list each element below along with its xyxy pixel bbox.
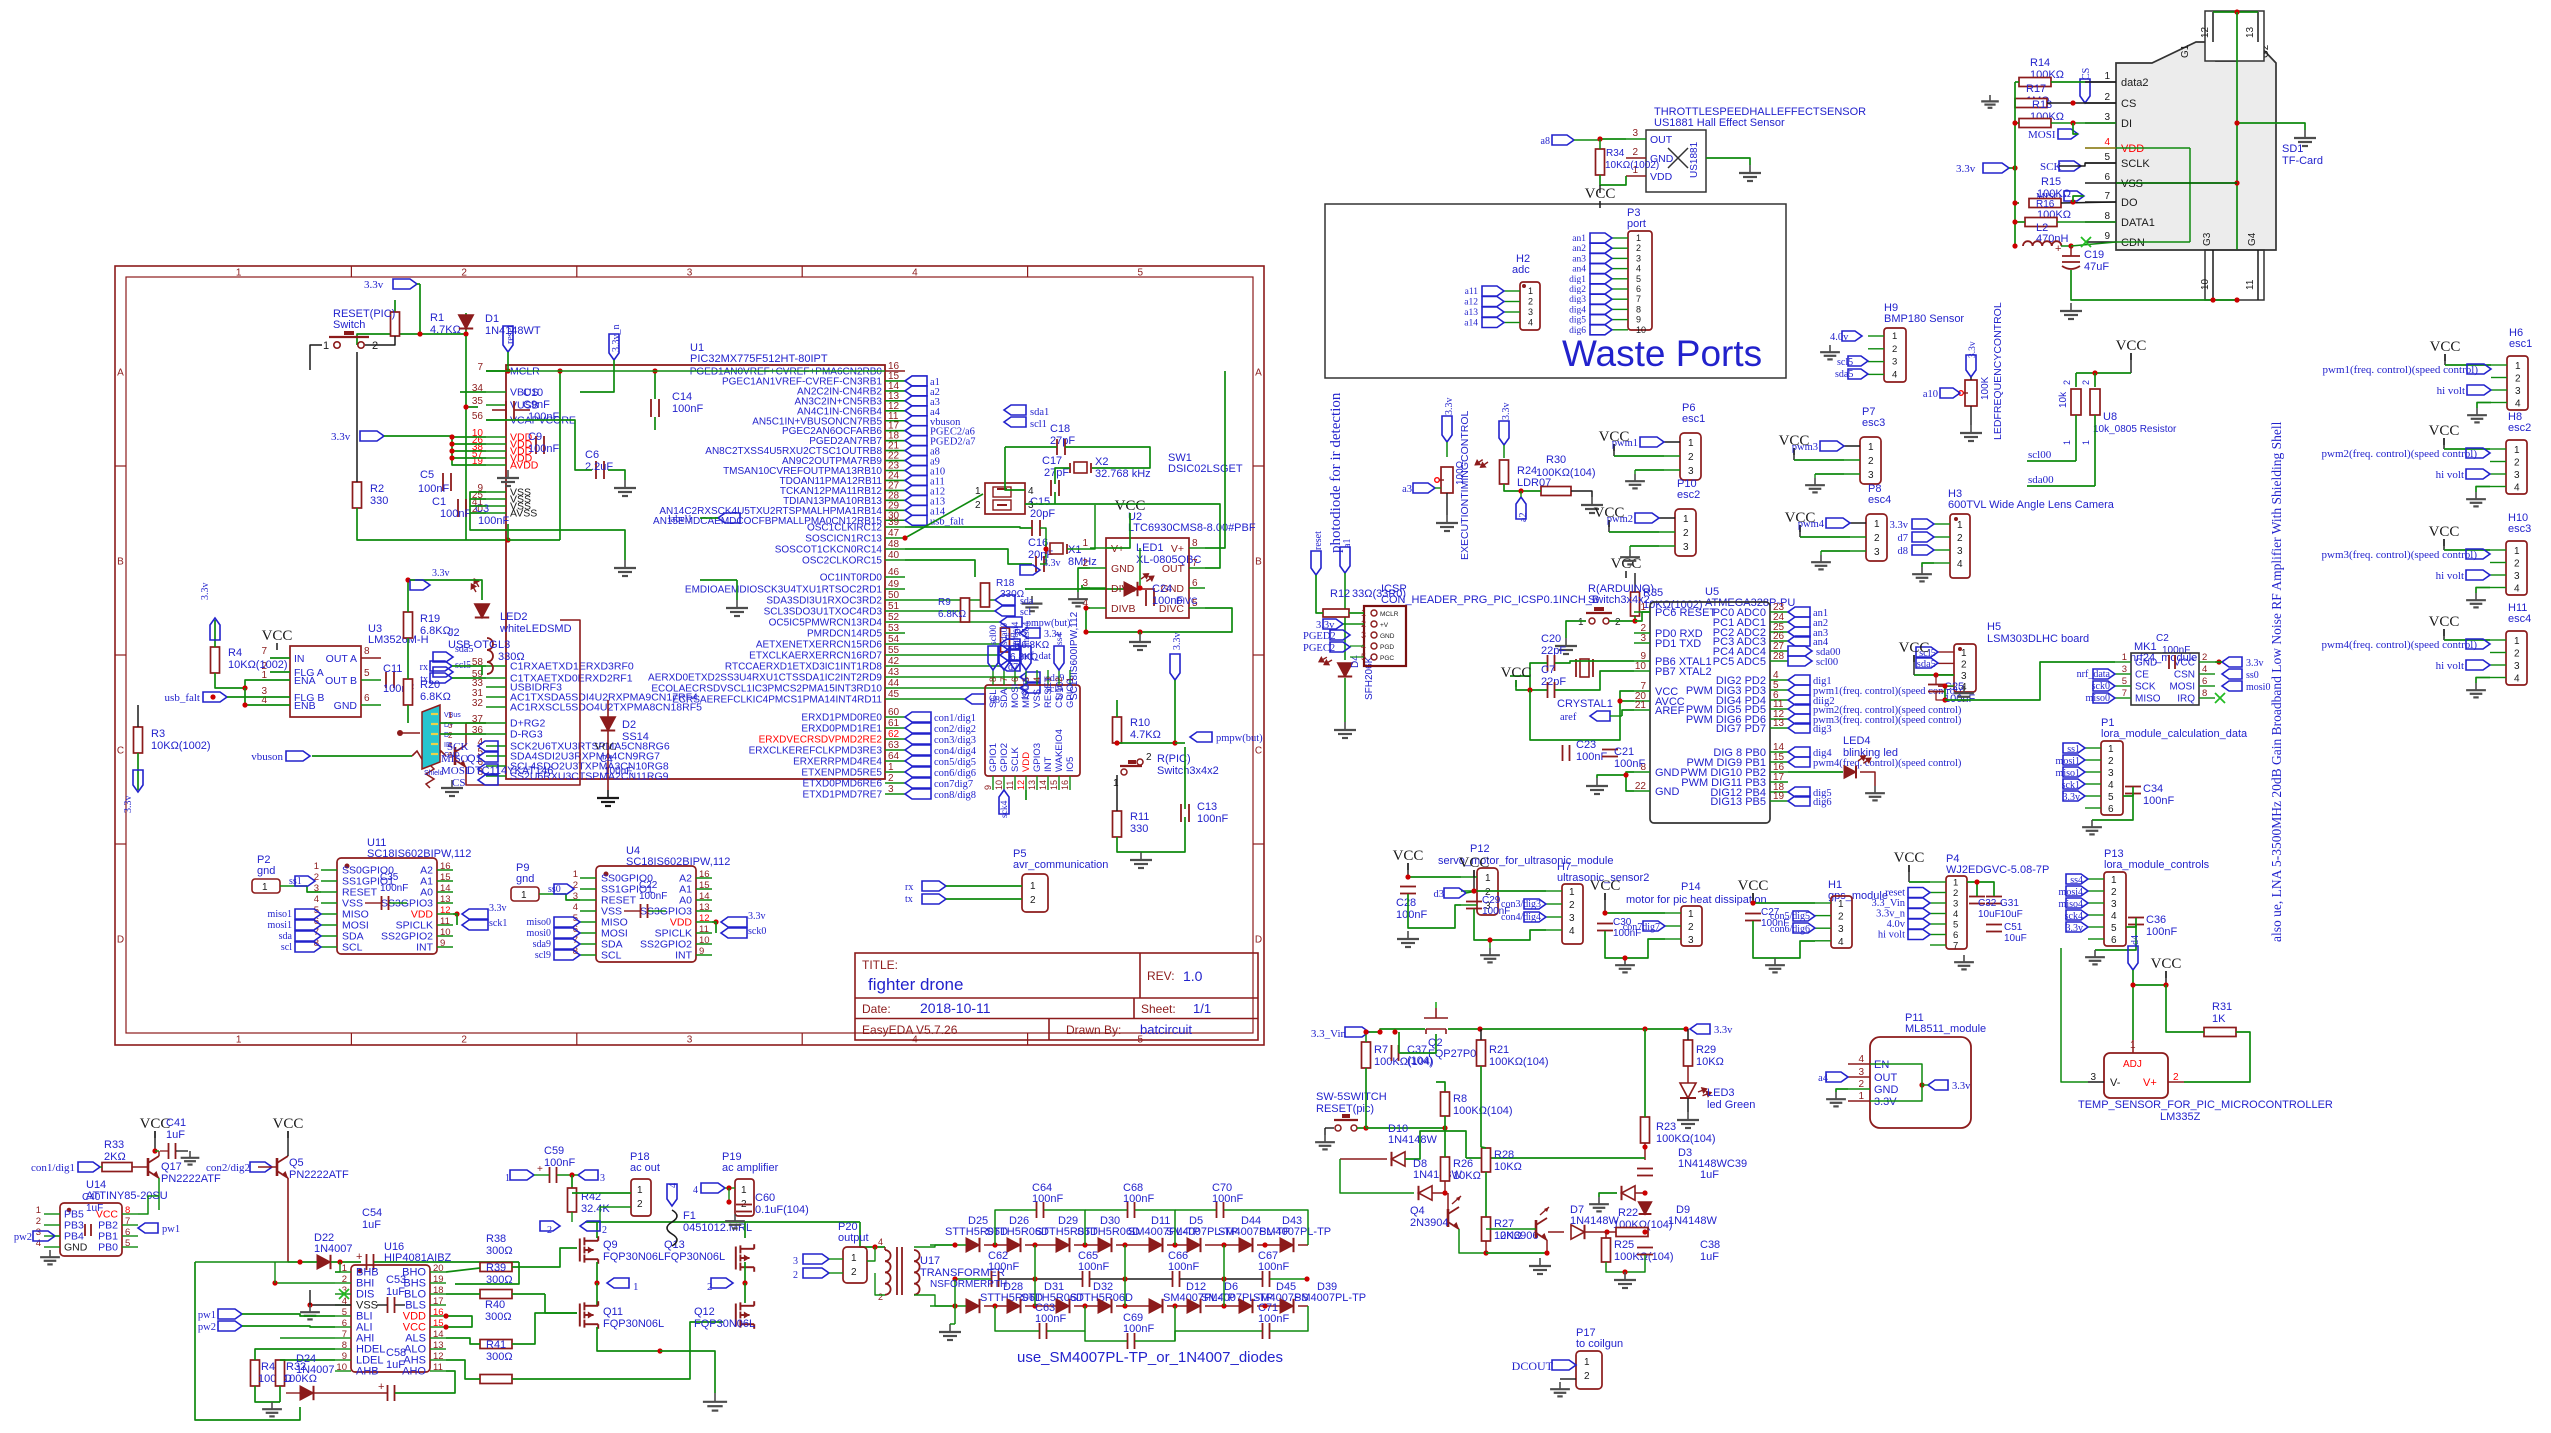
temp sensor LM335Z	[2104, 1053, 2168, 1098]
crystal X2 32.768kHz	[1069, 463, 1071, 473]
wire mid rail	[955, 1278, 991, 1280]
svg-text:OUT: OUT	[1650, 134, 1673, 146]
U16 pin 14 ALS	[430, 1337, 446, 1339]
svg-text:CS: CS	[2081, 68, 2092, 80]
svg-text:sda: sda	[279, 931, 293, 942]
ground	[949, 1324, 951, 1332]
inductor L3	[487, 638, 493, 674]
svg-text:100nF: 100nF	[1944, 693, 1975, 705]
photodiode D4 SFH206K	[1344, 573, 1346, 660]
svg-text:SCK: SCK	[447, 741, 468, 753]
svg-text:R15: R15	[2041, 176, 2061, 188]
svg-text:SW-5SWITCH: SW-5SWITCH	[1316, 1091, 1387, 1103]
svg-text:1: 1	[2108, 744, 2114, 755]
wire	[1055, 468, 1070, 484]
svg-text:3: 3	[1892, 357, 1897, 368]
net flag sda00	[999, 646, 1009, 670]
svg-text:1: 1	[1874, 519, 1880, 530]
svg-text:1: 1	[637, 1185, 643, 1196]
svg-text:C20: C20	[1541, 633, 1561, 645]
U10 pin 4 VSS	[1036, 670, 1038, 685]
ground	[2091, 820, 2093, 827]
svg-text:pwm4(freq. control)(speed cont: pwm4(freq. control)(speed control)	[2322, 639, 2478, 651]
resistor R41	[480, 1375, 512, 1384]
svg-text:1N4007: 1N4007	[314, 1243, 353, 1255]
svg-text:R3: R3	[151, 728, 165, 740]
svg-text:1: 1	[36, 1205, 41, 1216]
svg-text:AETXENETXERRCN15RD6: AETXENETXERRCN15RD6	[756, 640, 883, 651]
U16 pin 20 BHO	[430, 1271, 446, 1273]
net flag pmpw(but)	[1190, 732, 1212, 742]
svg-text:10KΩ: 10KΩ	[1494, 1161, 1522, 1173]
svg-text:4: 4	[1953, 909, 1958, 920]
svg-text:1uF: 1uF	[86, 1203, 103, 1214]
svg-text:PC5 ADC5: PC5 ADC5	[1713, 656, 1766, 668]
U4 pin 7	[580, 943, 596, 945]
svg-text:2: 2	[1961, 659, 1967, 670]
svg-text:INT: INT	[1043, 757, 1054, 773]
svg-text:2: 2	[1632, 147, 1638, 158]
U10 pin 13 GPIO3	[1036, 776, 1038, 790]
svg-text:GND: GND	[1655, 767, 1680, 779]
svg-text:PMRDCN14RD5: PMRDCN14RD5	[807, 629, 882, 640]
svg-text:a3: a3	[1402, 484, 1412, 495]
svg-text:dig6: dig6	[1813, 797, 1832, 808]
svg-text:+: +	[356, 1251, 362, 1263]
svg-text:1: 1	[1113, 778, 1119, 789]
svg-text:R28: R28	[1494, 1149, 1514, 1161]
svg-text:DIG7 PD7: DIG7 PD7	[1716, 723, 1766, 735]
MK1 pin 2 VCC	[2199, 661, 2215, 663]
svg-text:hi volt: hi volt	[2436, 570, 2464, 582]
U14 pin 5 PB0	[122, 1246, 138, 1248]
svg-text:batcircuit: batcircuit	[1140, 1022, 1192, 1037]
svg-text:sda00: sda00	[2028, 474, 2054, 486]
wire data1	[2015, 221, 2025, 223]
svg-text:Switch: Switch	[333, 319, 365, 331]
svg-text:pw2: pw2	[14, 1232, 32, 1243]
svg-text:GPIO1: GPIO1	[988, 743, 999, 772]
U14 pin 6 PB1	[122, 1235, 138, 1237]
svg-text:8: 8	[364, 646, 370, 657]
SD1 bottom tabs G3 G4	[2205, 250, 2264, 300]
wire L2/CDN	[2012, 243, 2017, 248]
svg-text:GND: GND	[334, 700, 358, 712]
svg-text:50: 50	[888, 590, 900, 601]
svg-text:VCC: VCC	[2174, 658, 2195, 669]
U1 pin 38 VDD	[486, 450, 506, 452]
svg-text:1: 1	[1838, 899, 1844, 910]
svg-text:port: port	[1627, 218, 1646, 230]
ground	[1629, 550, 1631, 557]
svg-text:8: 8	[125, 1205, 130, 1216]
svg-text:pwm3: pwm3	[1792, 442, 1818, 453]
U5 pin 1 PC6 RESET	[1634, 611, 1650, 613]
U4 pin 11	[696, 932, 712, 934]
svg-text:10: 10	[699, 935, 710, 946]
U4 pin 9	[696, 954, 712, 956]
svg-text:1: 1	[1636, 233, 1641, 243]
mosfet Q9 FQP30N06L	[580, 1236, 598, 1264]
svg-text:R24: R24	[1517, 465, 1537, 477]
SD1 pin 5 SCLK	[2085, 162, 2116, 164]
U1 pin 48 SOSCOT1CKCN0RC14	[885, 548, 905, 550]
svg-text:9: 9	[699, 946, 704, 957]
svg-text:rx: rx	[905, 882, 913, 893]
U1 pin 57 VDD	[486, 457, 506, 459]
U2 pin 7 OUT	[1189, 567, 1205, 569]
svg-text:R30: R30	[1546, 454, 1566, 466]
svg-text:US1881 Hall Effect Sensor: US1881 Hall Effect Sensor	[1654, 117, 1785, 129]
ICSP pin 2 +V	[1371, 621, 1377, 627]
wire q4 emitter	[1459, 1229, 1486, 1253]
X mark no-connect	[2215, 693, 2225, 703]
svg-text:ERXD1PMD0RE0: ERXD1PMD0RE0	[801, 713, 882, 724]
U1 pin 21 AN8C2TXSS4U5RXU2CTSC1OUTRB8	[885, 450, 905, 452]
svg-text:10: 10	[336, 1362, 347, 1373]
svg-text:2: 2	[1838, 912, 1844, 923]
svg-text:2: 2	[1636, 243, 1641, 253]
MK1 pin 6 MOSI	[2199, 685, 2215, 687]
U1 pin 46 OC1INT0RD0	[885, 576, 905, 578]
sheet border frame	[115, 266, 1264, 1045]
svg-text:C58: C58	[386, 1347, 406, 1359]
svg-text:2: 2	[461, 1035, 467, 1046]
U1 pin 43 AERXD0ETXD2SS3U4RXU1CTSSDA1IC2INT2RD9	[885, 676, 905, 678]
svg-text:pw1: pw1	[162, 1224, 180, 1235]
svg-text:2: 2	[1528, 297, 1533, 307]
svg-text:hi volt: hi volt	[1878, 930, 1905, 941]
svg-text:IRQ: IRQ	[2177, 694, 2195, 705]
net flag sda9	[1020, 672, 1040, 682]
svg-text:2: 2	[1584, 1371, 1590, 1382]
MK1 pin 7 MISO	[2115, 697, 2131, 699]
wire	[486, 420, 592, 470]
svg-text:2: 2	[878, 1292, 883, 1302]
svg-text:2: 2	[1874, 533, 1880, 544]
svg-text:VSS: VSS	[1032, 689, 1043, 708]
svg-text:3: 3	[1528, 307, 1533, 317]
svg-text:V+: V+	[1111, 543, 1124, 555]
ground	[1970, 425, 1972, 433]
svg-text:OUT: OUT	[1162, 563, 1185, 575]
MK1 pin 5 SCK	[2115, 685, 2131, 687]
svg-text:3.3v: 3.3v	[1952, 1081, 1971, 1092]
transistor Q5 PN2222ATF	[276, 1158, 279, 1176]
svg-text:1: 1	[236, 268, 242, 279]
svg-text:10k: 10k	[2058, 391, 2069, 408]
svg-text:led Green: led Green	[1707, 1099, 1755, 1111]
P11 pin 1 3.3V	[1848, 1100, 1870, 1102]
svg-text:100nF,: 100nF,	[528, 411, 561, 423]
ground	[2094, 950, 2096, 957]
svg-text:dig4: dig4	[1569, 305, 1586, 315]
wire q9 chain	[585, 1221, 860, 1223]
ground	[189, 1151, 191, 1158]
LDR R24 LDR07	[1503, 445, 1505, 458]
svg-text:C41: C41	[166, 1117, 186, 1129]
svg-text:100nF: 100nF	[672, 403, 703, 415]
svg-text:lora_module_controls: lora_module_controls	[2104, 859, 2210, 871]
SD1 pin 2 CS	[2085, 102, 2116, 104]
svg-text:aref: aref	[1560, 712, 1577, 723]
svg-text:8: 8	[2202, 688, 2207, 699]
U2 pin 4 DIVB	[1090, 607, 1106, 609]
svg-text:1uF: 1uF	[1700, 1251, 1719, 1263]
svg-text:GPIO3: GPIO3	[1032, 743, 1043, 772]
svg-text:2: 2	[1615, 617, 1621, 628]
svg-text:1: 1	[1578, 617, 1584, 628]
svg-text:2: 2	[1683, 528, 1689, 539]
svg-text:R9: R9	[938, 597, 951, 608]
svg-text:6: 6	[1953, 930, 1958, 941]
svg-text:DATA1: DATA1	[2121, 217, 2155, 229]
svg-text:pwm4(freq. control)(speed cont: pwm4(freq. control)(speed control)	[1813, 758, 1962, 769]
svg-text:R26: R26	[1453, 1158, 1473, 1170]
U1 pin 42 RTCCAERXD1ETXD3IC1INT1RD8	[885, 665, 905, 667]
SD1 pin 1 data2	[2085, 81, 2116, 83]
svg-text:LTC6930CMS8-8.00#PBF: LTC6930CMS8-8.00#PBF	[1128, 522, 1256, 534]
capacitor C5	[442, 473, 444, 491]
wire xtal	[1530, 663, 1547, 690]
svg-text:C51: C51	[2004, 922, 2023, 933]
svg-text:2: 2	[637, 1199, 643, 1210]
svg-text:2: 2	[1868, 456, 1874, 467]
US1881 pin 2 GND	[1626, 157, 1646, 159]
svg-text:100KΩ(104): 100KΩ(104)	[1489, 1056, 1549, 1068]
ground	[1565, 638, 1567, 646]
svg-text:sck4: sck4	[1000, 800, 1010, 818]
svg-text:R23: R23	[1656, 1121, 1676, 1133]
svg-text:4: 4	[2514, 584, 2520, 595]
svg-text:7: 7	[125, 1216, 130, 1227]
svg-text:EMDIOAEMDIOSCK3U4TXU1RTSOC2RD1: EMDIOAEMDIOSCK3U4TXU1RTSOC2RD1	[685, 585, 883, 596]
svg-text:100KΩ(104): 100KΩ(104)	[1536, 467, 1596, 479]
svg-text:sda: sda	[1020, 596, 1034, 607]
ICSP pin 1 MCLR	[1371, 610, 1377, 616]
svg-text:100nF: 100nF	[1197, 813, 1228, 825]
svg-text:VCC: VCC	[1115, 498, 1146, 514]
wire C19 gnd	[2071, 270, 2237, 300]
mosfet Q11 FQP30N06L	[580, 1301, 598, 1329]
wire	[1504, 484, 1541, 491]
U11 pin 16	[437, 869, 453, 871]
svg-text:2: 2	[1858, 1079, 1864, 1090]
svg-text:R25: R25	[1614, 1239, 1634, 1251]
svg-text:4: 4	[1569, 926, 1575, 937]
svg-text:G4: G4	[2247, 232, 2258, 246]
svg-text:an1: an1	[1572, 234, 1586, 244]
svg-text:2: 2	[2514, 649, 2520, 660]
svg-text:5: 5	[364, 668, 370, 679]
svg-text:4.0v: 4.0v	[1887, 919, 1906, 930]
LED2	[475, 604, 489, 618]
svg-text:6: 6	[125, 1227, 130, 1238]
wire	[1936, 692, 1945, 700]
LED3 led Green	[1687, 1066, 1689, 1083]
svg-text:IN: IN	[294, 653, 305, 665]
svg-text:VCC: VCC	[1899, 640, 1930, 656]
ground	[1749, 165, 1751, 173]
ground	[1344, 722, 1346, 730]
U1 pin 7 MCLR	[486, 370, 506, 372]
svg-text:300Ω: 300Ω	[486, 1274, 513, 1286]
U1 pin 16 PGED1AN0VREF+CVREF+PMA6CN2RB0	[885, 370, 905, 372]
capacitor C29	[1466, 901, 1482, 903]
svg-text:R38: R38	[486, 1233, 506, 1245]
net flag sda1	[1004, 405, 1026, 415]
net flag pw1	[138, 1223, 158, 1233]
resistor R43	[251, 1360, 260, 1386]
net flag scl00	[988, 646, 998, 670]
svg-text:d3: d3	[1434, 889, 1445, 900]
svg-text:1: 1	[1030, 881, 1036, 892]
svg-text:6: 6	[1636, 284, 1641, 294]
svg-text:7: 7	[2122, 688, 2127, 699]
svg-text:62: 62	[888, 729, 900, 740]
svg-text:LEDFREQUENCYCONTROL: LEDFREQUENCYCONTROL	[1992, 302, 2004, 440]
svg-text:IO5: IO5	[1065, 757, 1076, 772]
capacitor C27	[1745, 913, 1761, 915]
svg-text:1uF: 1uF	[386, 1286, 405, 1298]
svg-text:13: 13	[440, 894, 451, 905]
U4 pin 3	[580, 899, 596, 901]
capacitor C32	[1969, 896, 1985, 898]
svg-text:ERXERRPMD4RE4: ERXERRPMD4RE4	[793, 757, 882, 768]
svg-text:6: 6	[2202, 676, 2207, 687]
svg-text:AHO: AHO	[402, 1366, 426, 1378]
svg-text:pw2: pw2	[198, 1322, 216, 1333]
svg-text:2: 2	[342, 1274, 347, 1285]
U2 pin 8 V+	[1189, 547, 1205, 549]
svg-text:INT: INT	[416, 942, 434, 954]
svg-text:TF-Card: TF-Card	[2282, 155, 2323, 167]
svg-text:LED2: LED2	[500, 611, 528, 623]
svg-text:3: 3	[2514, 571, 2520, 582]
svg-text:5: 5	[125, 1238, 130, 1249]
svg-text:C38: C38	[1700, 1239, 1720, 1251]
wire VSS rail	[470, 492, 486, 499]
svg-text:SD1: SD1	[2282, 143, 2303, 155]
svg-text:lora_module_calculation_data: lora_module_calculation_data	[2101, 728, 2248, 740]
U1 pin 54 AETXENETXERRCN15RD6	[885, 643, 905, 645]
U1 pin 30 AN15EMDCAEMDCOCFBPMALLPMA0CN12RB15	[885, 519, 905, 521]
svg-text:2: 2	[975, 500, 981, 511]
U1 pin 23 TMSAN10CVREFOUTPMA13RB10	[885, 470, 905, 472]
svg-text:OUT B: OUT B	[325, 675, 357, 687]
US1881 pin 1 VDD	[1626, 175, 1646, 177]
svg-text:18: 18	[433, 1285, 444, 1296]
net flag CS vertical	[2080, 79, 2090, 103]
U1 pin 11 AN5C1IN+VBUSONCN7RB5	[885, 420, 905, 422]
svg-text:4: 4	[668, 1183, 679, 1188]
svg-text:V+: V+	[1171, 543, 1184, 555]
svg-text:ss4: ss4	[1055, 633, 1065, 645]
potentiometer 100 ohm	[1446, 442, 1448, 457]
svg-text:6: 6	[364, 693, 370, 704]
svg-text:DIVB: DIVB	[1111, 603, 1136, 615]
U3 pin 5 OUT B	[361, 679, 381, 681]
wire osc	[1067, 505, 1095, 549]
wire big loop left	[195, 1262, 300, 1420]
svg-text:data2: data2	[2121, 77, 2149, 89]
svg-text:15: 15	[433, 1318, 444, 1329]
svg-text:WAKEIO4: WAKEIO4	[1054, 729, 1065, 772]
svg-text:d7: d7	[1898, 533, 1909, 544]
US1881 pin 3 OUT	[1626, 138, 1646, 140]
svg-text:2: 2	[2062, 380, 2072, 385]
svg-text:3: 3	[1858, 1067, 1864, 1078]
svg-text:TITLE:: TITLE:	[862, 958, 898, 972]
svg-text:sda1: sda1	[1030, 407, 1049, 418]
ground	[1077, 592, 1079, 599]
svg-text:con5/dig5: con5/dig5	[934, 757, 976, 768]
svg-text:C28: C28	[1396, 897, 1416, 909]
svg-text:8: 8	[988, 677, 998, 682]
svg-text:14: 14	[433, 1329, 444, 1340]
svg-text:motor for pic heat dissipation: motor for pic heat dissipation	[1626, 894, 1767, 906]
U14 pin 1 PB5	[44, 1213, 60, 1215]
svg-text:con1/dig1: con1/dig1	[934, 713, 976, 724]
U16 pin 10 AHB	[335, 1370, 351, 1372]
title block	[855, 953, 1258, 1040]
svg-text:1: 1	[741, 1185, 747, 1196]
svg-text:con1/dig1: con1/dig1	[31, 1162, 75, 1174]
svg-text:scl00: scl00	[2028, 449, 2052, 461]
svg-text:A: A	[117, 368, 124, 379]
svg-text:47uF: 47uF	[2084, 261, 2109, 273]
U16 pin 1 BHB	[335, 1271, 351, 1273]
net flag ss0	[2222, 669, 2242, 679]
svg-text:AERXD0ETXD2SS3U4RXU1CTSSDA1IC2: AERXD0ETXD2SS3U4RXU1CTSSDA1IC2INT2RD9	[648, 673, 882, 684]
ground big	[714, 1393, 716, 1402]
transformer core	[896, 1247, 898, 1295]
svg-text:100nF: 100nF	[1614, 758, 1645, 770]
svg-text:GND: GND	[1655, 786, 1680, 798]
svg-text:1: 1	[1961, 648, 1967, 659]
svg-text:3: 3	[1361, 630, 1366, 640]
ground	[624, 560, 626, 568]
svg-text:esc1: esc1	[2509, 338, 2532, 350]
svg-text:C7: C7	[1541, 664, 1555, 676]
svg-text:miso1: miso1	[268, 909, 292, 920]
svg-text:U8: U8	[2103, 411, 2117, 423]
svg-text:3.3v_n: 3.3v_n	[611, 325, 622, 353]
svg-text:5: 5	[1953, 920, 1958, 931]
U11 pin 6	[321, 924, 337, 926]
svg-text:C11: C11	[383, 663, 402, 675]
svg-text:hi volt: hi volt	[2436, 660, 2464, 672]
U2 pin 5 DIVC	[1189, 607, 1205, 609]
svg-text:a11: a11	[1465, 287, 1479, 297]
svg-text:6.8KΩ: 6.8KΩ	[420, 691, 451, 703]
svg-text:SCLK: SCLK	[1010, 747, 1021, 772]
svg-text:scl9: scl9	[535, 950, 551, 961]
svg-text:con8/dig8: con8/dig8	[934, 790, 976, 801]
svg-text:6: 6	[2111, 935, 2117, 946]
svg-text:VCC: VCC	[1894, 850, 1925, 866]
U1 pin 19 AVDD	[486, 464, 506, 466]
svg-text:LM335Z: LM335Z	[2160, 1111, 2201, 1123]
U11 pin 7	[321, 935, 337, 937]
svg-text:13: 13	[2245, 26, 2256, 38]
svg-text:22: 22	[1635, 781, 1647, 792]
net flag 3.3v_n (vertical)	[609, 334, 619, 360]
svg-text:X2: X2	[1095, 456, 1108, 468]
svg-text:dig1: dig1	[1569, 275, 1586, 285]
svg-text:scl00: scl00	[989, 625, 999, 645]
net flag 4 vertical	[667, 1184, 677, 1206]
